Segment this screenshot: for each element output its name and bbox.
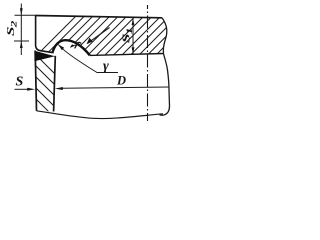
hatching: pipe wall section	[28, 47, 62, 136]
r arrowhead	[70, 44, 74, 48]
pipe outer wall	[35, 51, 36, 111]
r leader (small hook arrow)	[71, 45, 76, 47]
weld pointer arrowhead	[87, 38, 93, 44]
pipe inner wall	[54, 56, 56, 112]
D arrow left	[55, 87, 63, 90]
plate bottom edge	[90, 54, 164, 56]
weld nugget dome (fusion line)	[52, 40, 90, 55]
svg-text:D: D	[116, 74, 126, 88]
dimension S: arrow line	[15, 88, 29, 90]
weld pointer leader (upper right)	[87, 28, 109, 44]
svg-text:γ: γ	[103, 59, 109, 74]
S2 top extension	[15, 14, 36, 16]
svg-text:S: S	[16, 75, 24, 90]
dimension S2: line	[20, 4, 22, 56]
plate right break edge (freehand)	[160, 18, 170, 115]
plate top edge	[36, 16, 163, 18]
S2 bottom extension	[14, 40, 29, 42]
S1 arrow down	[132, 47, 135, 54]
dimension S1: line	[132, 18, 134, 54]
dimension D: line with left arrow	[62, 87, 169, 88]
root sealing weld (black triangle)	[34, 51, 55, 61]
label r	[75, 42, 81, 48]
centerline (dash-dot axis)	[147, 5, 149, 121]
plate left edge with rounded lower corner	[36, 16, 53, 53]
bottom break line (freehand wavy)	[37, 111, 164, 119]
gamma arrowhead	[58, 45, 64, 51]
S arrow right	[27, 88, 35, 91]
S2 arrow down	[20, 8, 23, 15]
svg-text:S2: S2	[5, 20, 19, 36]
S2 arrow up	[20, 41, 23, 48]
gamma leader	[58, 45, 118, 73]
S1 arrow up	[132, 18, 135, 25]
svg-text:S1: S1	[120, 28, 134, 43]
hatching: flange plate section	[30, 12, 208, 62]
